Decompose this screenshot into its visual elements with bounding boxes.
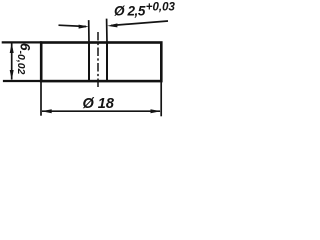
svg-text:Ø 18: Ø 18 (83, 96, 115, 112)
svg-text:6-0,02: 6-0,02 (15, 43, 33, 75)
svg-text:+0,03: +0,03 (146, 1, 176, 13)
svg-text:Ø 2,5: Ø 2,5 (114, 3, 146, 18)
